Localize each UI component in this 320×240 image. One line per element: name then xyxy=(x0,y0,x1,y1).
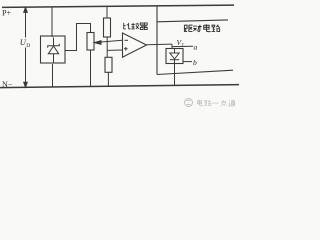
wire pot bottom xyxy=(90,50,92,87)
plus sign xyxy=(124,47,128,51)
wire box right riser to pot xyxy=(65,24,91,51)
wire comparator output xyxy=(147,43,173,46)
LED VL symbol xyxy=(170,49,179,64)
voltage regulator box xyxy=(41,36,66,63)
wire R2 bottom xyxy=(107,72,109,86)
wiper arrow wire to comparator inverting input xyxy=(94,40,122,44)
zener diode symbol xyxy=(48,38,60,64)
minus sign xyxy=(125,39,129,41)
voltage arrow UD xyxy=(24,7,28,87)
wire top rail P+ xyxy=(2,5,234,7)
wire R1 top xyxy=(106,6,108,18)
wire R1 to R2 xyxy=(106,37,108,57)
svg-text:L: L xyxy=(182,42,185,48)
watermark logo xyxy=(185,99,193,107)
op-amp comparator U1 xyxy=(123,33,147,57)
drive circuit box xyxy=(157,6,233,75)
LED box xyxy=(166,49,183,64)
wire terminal a xyxy=(172,45,193,47)
wire divider tap to noninverting input xyxy=(107,49,122,51)
wire box top xyxy=(51,7,53,37)
watermark text 电路一点通 xyxy=(197,100,235,106)
wire bottom rail N- xyxy=(0,85,239,88)
resistor R2 lower divider xyxy=(105,57,112,72)
svg-text:P+: P+ xyxy=(2,9,12,18)
wire terminal b xyxy=(183,61,192,63)
resistor R1 upper divider xyxy=(104,18,111,37)
svg-text:N−: N− xyxy=(2,80,13,89)
svg-text:D: D xyxy=(26,43,30,49)
label drive circuit 驱动电路 xyxy=(184,24,220,31)
wire LED cathode to N- xyxy=(174,64,176,86)
wire output down to LED xyxy=(171,44,173,48)
potentiometer RP xyxy=(87,33,94,51)
svg-text:b: b xyxy=(193,58,197,67)
label comparator 比较器 xyxy=(124,23,147,30)
wire box bottom xyxy=(52,64,54,87)
svg-text:a: a xyxy=(194,42,198,51)
